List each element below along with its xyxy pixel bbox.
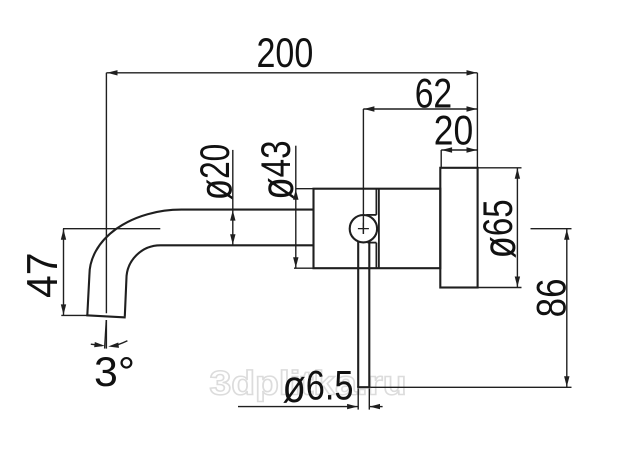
faucet body (cartridge housing) — [314, 189, 441, 269]
extension line flange bottom — [478, 287, 522, 289]
dimension line dia6.5 left — [238, 406, 358, 408]
arrowhead 86 up — [564, 229, 569, 240]
lever handle left edge — [357, 241, 359, 387]
extension line body bottom — [294, 267, 314, 269]
dimension line 62 — [363, 108, 477, 110]
arrowhead 20 right — [467, 147, 478, 152]
spout tip end face — [86, 315, 125, 317]
dimension line 200 — [106, 72, 477, 74]
svg-text:20: 20 — [434, 107, 474, 154]
arrowhead dia6.5 right — [370, 404, 381, 409]
arrowhead angle right — [108, 343, 119, 348]
angle arrow right tail — [112, 341, 128, 347]
dimension line dia43 — [295, 146, 297, 269]
arrowhead dia43 down — [293, 257, 298, 268]
spout upper profile — [87, 210, 313, 316]
body seam line 2 — [378, 189, 380, 269]
extension line axis right — [531, 228, 572, 230]
extension line spout axis — [105, 73, 107, 313]
extension line 20 flange left — [440, 150, 442, 168]
hub top edge — [366, 214, 376, 216]
svg-text:ø65: ø65 — [473, 199, 525, 258]
extension line 62 to pivot — [362, 109, 364, 234]
extension line spout tip — [61, 314, 87, 316]
svg-text:3°: 3° — [94, 348, 135, 395]
extension line lever right — [368, 389, 370, 410]
extension line axis left — [63, 228, 160, 230]
svg-text:47: 47 — [19, 253, 67, 299]
arrowhead 200 left — [107, 70, 118, 75]
svg-text:200: 200 — [257, 29, 314, 76]
arrowhead dia65 up — [515, 168, 520, 179]
arrowhead dia43 up — [293, 189, 298, 200]
dimension line 86 — [566, 229, 568, 388]
lever handle bottom end — [357, 386, 370, 388]
svg-text:ø20: ø20 — [190, 144, 242, 201]
pivot center cross — [358, 223, 369, 234]
svg-text:ø43: ø43 — [251, 140, 303, 199]
extension line lever bottom — [370, 386, 571, 388]
arrowhead 47 up — [61, 229, 66, 240]
body seam line 1 — [375, 189, 377, 269]
dimension line 20 — [441, 149, 477, 151]
extension line wall face right — [476, 73, 478, 168]
dimension line dia6.5 right — [369, 406, 382, 408]
extension line body top — [296, 188, 314, 190]
wall flange — [440, 168, 477, 288]
angle arrow left tail — [91, 344, 102, 345]
hub bottom edge — [368, 242, 377, 244]
arrowhead 200 right — [467, 70, 478, 75]
extension line flange top — [478, 167, 522, 169]
angle leg vertical — [105, 320, 107, 349]
arrowhead 62 right — [467, 106, 478, 111]
lever handle right edge — [368, 241, 370, 387]
svg-text:ø6.5: ø6.5 — [283, 360, 354, 412]
arrowhead 47 down — [61, 304, 66, 315]
svg-text:86: 86 — [528, 278, 575, 317]
arrowhead 86 down — [564, 376, 569, 387]
arrowhead 20 left — [442, 147, 453, 152]
arrowhead 62 left — [364, 106, 375, 111]
spout lower profile — [125, 245, 314, 316]
dimension line dia65 — [516, 168, 518, 288]
dimension line dia20 — [232, 150, 234, 245]
arrowhead dia65 down — [515, 277, 520, 288]
arrowhead dia20 down — [230, 234, 235, 245]
dimension line 47 — [63, 229, 65, 316]
arrowhead dia6.5 left — [347, 404, 358, 409]
arrowhead angle left — [94, 342, 105, 347]
extension line lever left — [357, 389, 359, 410]
arrowhead dia20 up — [230, 210, 235, 221]
angle leg tilted — [105, 320, 107, 349]
lever pivot ball — [350, 215, 377, 242]
